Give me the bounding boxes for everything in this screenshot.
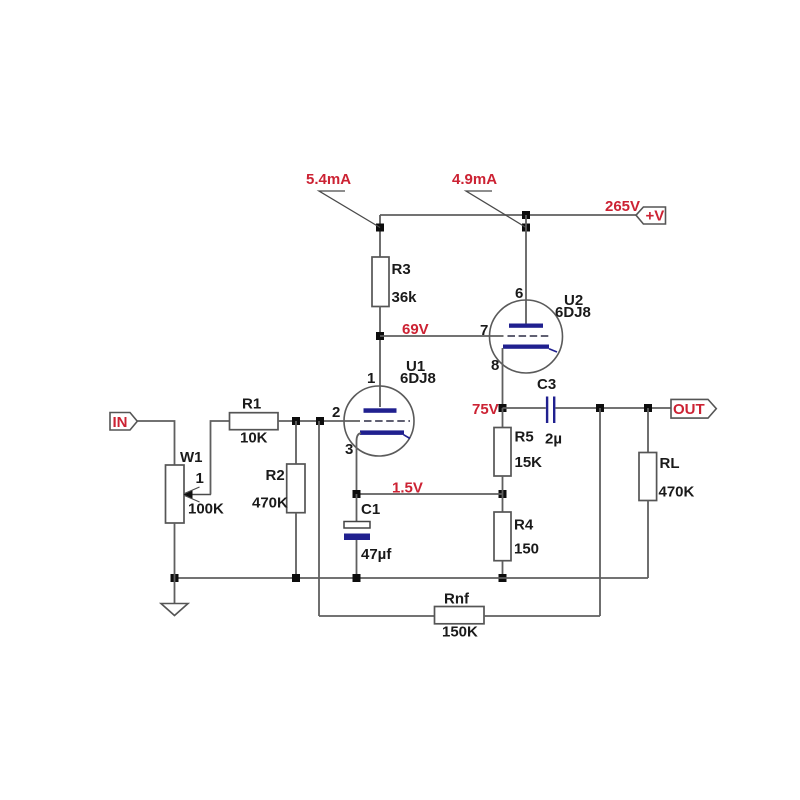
wire ground bus: [175, 577, 649, 579]
wire wiper to R1: [211, 421, 230, 495]
svg-text:Rnf: Rnf: [444, 591, 470, 608]
svg-text:R3: R3: [392, 261, 411, 278]
capacitor C3: [547, 397, 554, 424]
node C1 top: [353, 490, 361, 498]
resistor R1: [230, 396, 279, 447]
svg-text:2: 2: [332, 404, 340, 421]
wiper arrow W1: [184, 487, 212, 502]
svg-text:7: 7: [480, 322, 488, 339]
port flag OUT: [671, 399, 716, 418]
svg-text:1.5V: 1.5V: [392, 480, 423, 497]
svg-text:100K: 100K: [188, 501, 224, 518]
resistor Rnf: [435, 591, 485, 641]
svg-text:150: 150: [514, 541, 539, 558]
node R2 junction: [292, 417, 300, 425]
potentiometer W1: [166, 449, 225, 523]
resistor R2: [252, 421, 305, 513]
wire 69V node to U2 grid: [380, 335, 504, 337]
triode U1: [344, 386, 414, 456]
wire R5 to R4: [502, 476, 504, 512]
node R5 R4 junction: [499, 490, 507, 498]
wire feedback left branch: [318, 421, 320, 616]
wire 1.5V cathode line: [357, 493, 503, 495]
wire W1 bottom lead: [174, 523, 176, 578]
wire U2 cathode lead pin 8: [502, 348, 504, 408]
leader line 5.4mA: [319, 191, 380, 228]
capacitor C1: [344, 494, 392, 578]
svg-text:OUT: OUT: [673, 401, 705, 418]
svg-text:470K: 470K: [252, 495, 288, 512]
node output RL junction: [644, 404, 652, 412]
resistor R4: [494, 512, 539, 561]
node R2 ground: [292, 574, 300, 582]
node U2 rail junction: [522, 211, 530, 219]
svg-text:6DJ8: 6DJ8: [400, 370, 436, 387]
node C1 ground: [353, 574, 361, 582]
wire feedback bottom right: [484, 615, 600, 617]
svg-text:R4: R4: [514, 517, 534, 534]
svg-text:4.9mA: 4.9mA: [452, 171, 497, 188]
wire top power rail: [380, 214, 636, 216]
wire RL bottom lead: [647, 501, 649, 579]
svg-text:W1: W1: [180, 449, 203, 466]
svg-text:265V: 265V: [605, 198, 640, 215]
node R3 top: [376, 224, 384, 232]
svg-text:15K: 15K: [515, 454, 543, 471]
node ground bus left: [171, 574, 179, 582]
svg-text:47µf: 47µf: [361, 546, 392, 563]
node 69V junction: [376, 332, 384, 340]
svg-text:8: 8: [491, 357, 499, 374]
svg-text:+V: +V: [646, 208, 665, 225]
svg-text:6DJ8: 6DJ8: [555, 304, 591, 321]
triode U2: [490, 300, 563, 373]
resistor R5: [494, 408, 542, 476]
power flag +V: [636, 207, 666, 225]
port flag IN: [110, 413, 137, 432]
wire R1 to U1 grid: [278, 420, 360, 422]
node output feedback junction: [596, 404, 604, 412]
svg-text:R5: R5: [515, 429, 534, 446]
wire R4 bottom lead: [502, 561, 504, 578]
leader line 4.9mA: [466, 191, 526, 228]
svg-text:10K: 10K: [240, 430, 268, 447]
wire feedback right branch: [599, 408, 601, 616]
wire R3 top lead: [379, 215, 381, 257]
svg-text:470K: 470K: [659, 484, 695, 501]
svg-text:75V: 75V: [472, 401, 499, 418]
wire R3 bottom to U1 plate: [379, 306, 381, 407]
resistor RL: [639, 408, 695, 501]
wire U1 cathode lead pin 3: [357, 433, 362, 494]
svg-text:C3: C3: [537, 376, 556, 393]
node 75V: [499, 404, 507, 412]
svg-text:3: 3: [345, 441, 353, 458]
svg-text:1: 1: [367, 370, 375, 387]
svg-text:150K: 150K: [442, 624, 478, 641]
svg-text:1: 1: [196, 470, 204, 487]
node feedback junction: [316, 417, 324, 425]
svg-text:R2: R2: [266, 467, 285, 484]
node U2 current pointer: [522, 224, 530, 232]
wire U2 plate lead pin 6: [525, 215, 527, 324]
svg-text:RL: RL: [660, 455, 680, 472]
wire 75V to C3: [503, 407, 546, 409]
ground symbol: [161, 578, 188, 616]
wire feedback bottom left: [319, 615, 435, 617]
svg-text:R1: R1: [242, 396, 261, 413]
svg-text:C1: C1: [361, 501, 380, 518]
svg-text:2µ: 2µ: [545, 431, 562, 448]
wire R2 bottom lead: [295, 513, 297, 578]
resistor R3: [372, 257, 417, 307]
svg-text:IN: IN: [113, 414, 128, 431]
svg-text:36k: 36k: [392, 289, 418, 306]
wire IN to W1 top: [137, 421, 174, 465]
wire C3 to OUT: [556, 407, 672, 409]
svg-text:6: 6: [515, 285, 523, 302]
svg-text:5.4mA: 5.4mA: [306, 171, 351, 188]
node R4 ground: [499, 574, 507, 582]
